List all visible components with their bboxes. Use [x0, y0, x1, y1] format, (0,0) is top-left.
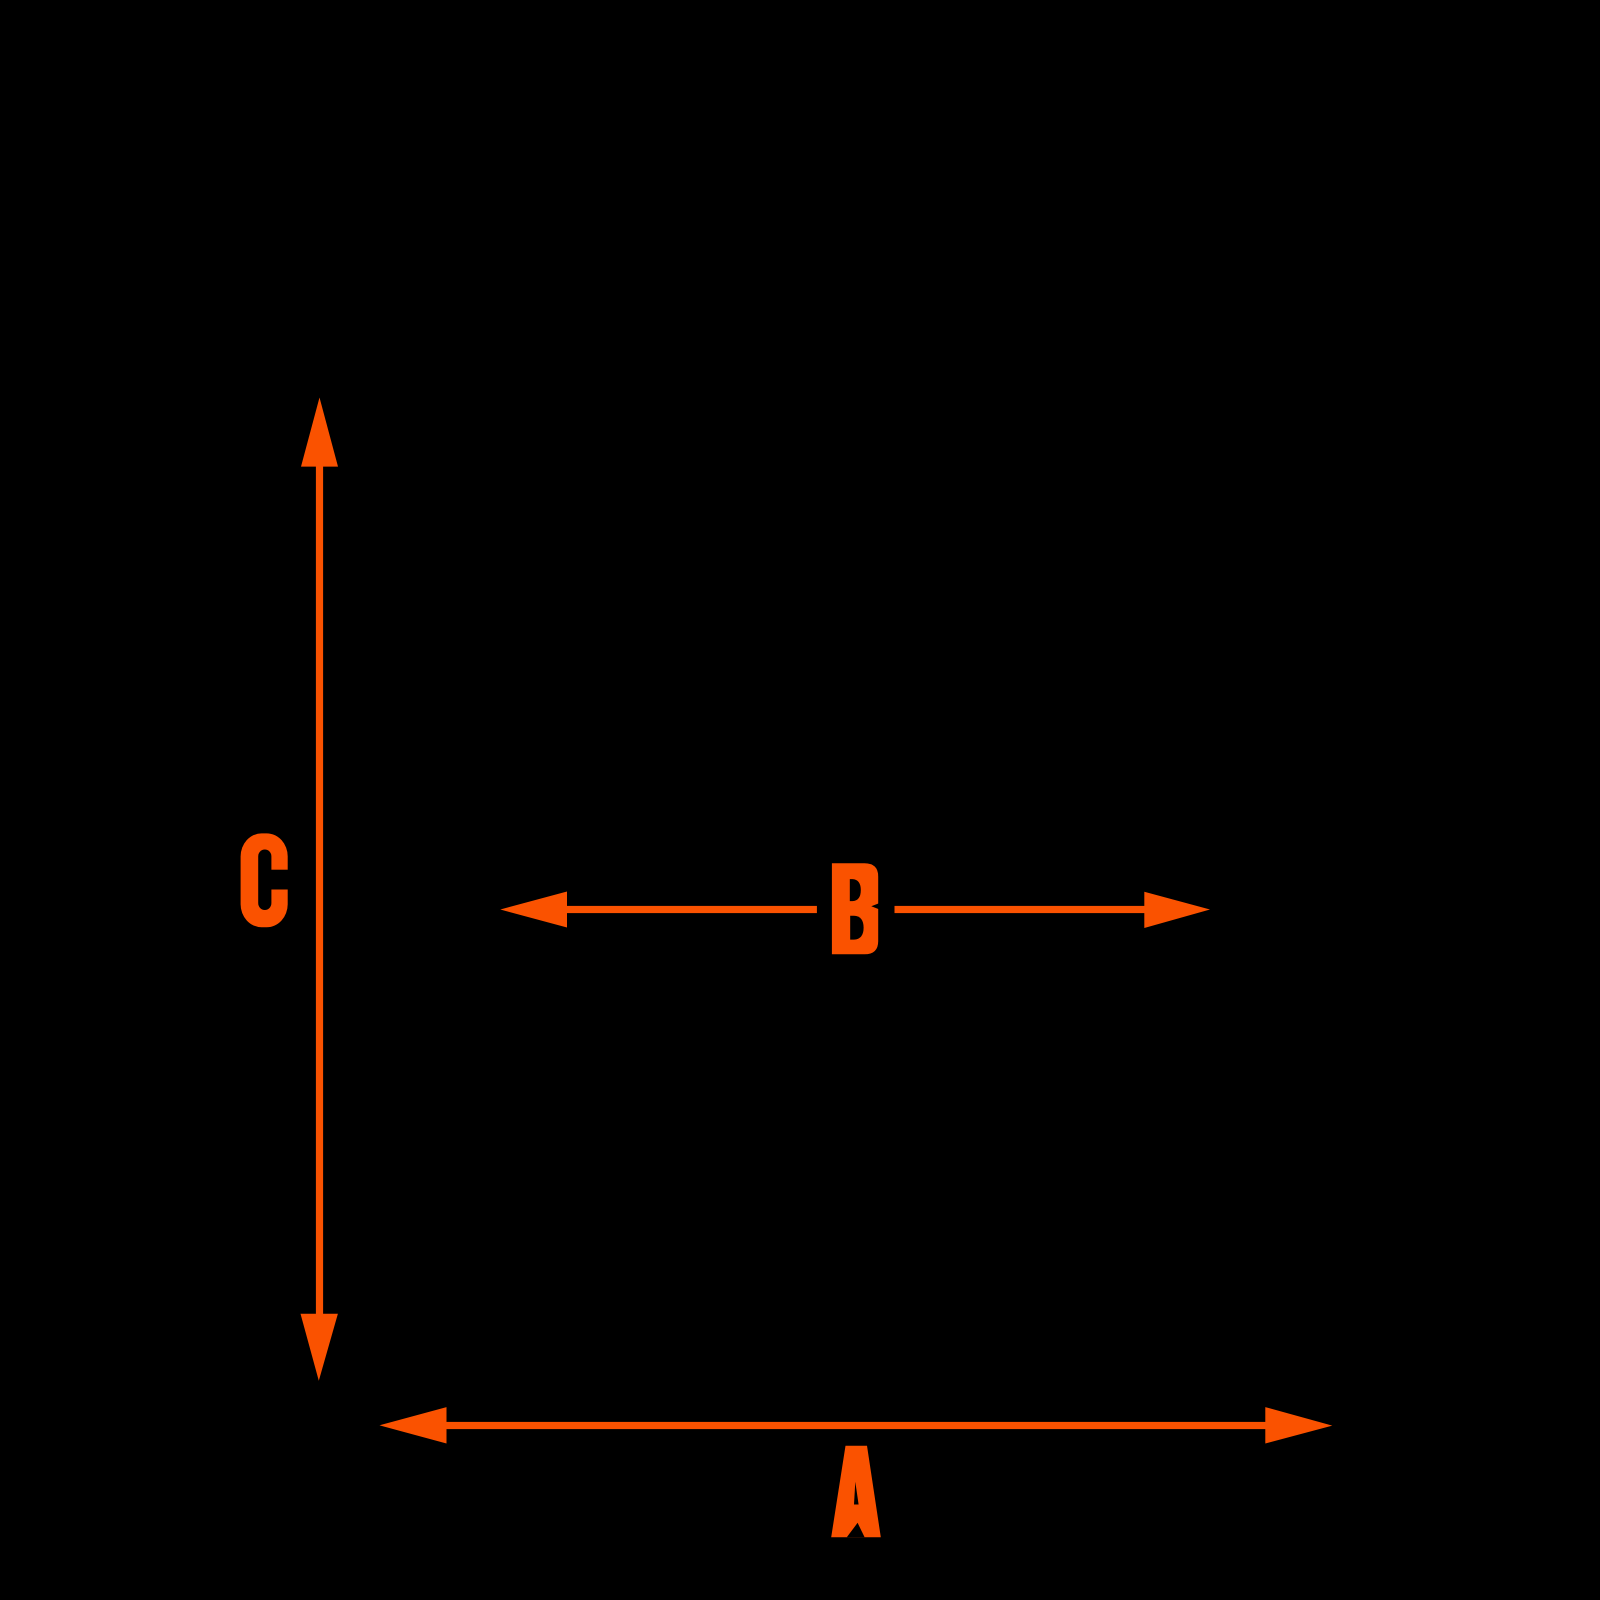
wire: vertical line of C arrow: [316, 460, 323, 1320]
dimension arrow A (horizontal double-headed): [380, 1407, 1333, 1443]
arrowhead A right: [1265, 1407, 1332, 1443]
arrowhead C top: [301, 398, 338, 467]
wire: right segment of B arrow: [895, 906, 1147, 913]
label B: [832, 863, 879, 954]
wire: left segment of B arrow: [565, 906, 817, 913]
arrowhead C bottom: [301, 1314, 338, 1381]
arrowhead B left: [500, 892, 567, 928]
dimension arrow C (vertical double-headed): [301, 398, 339, 1381]
label A: [831, 1446, 881, 1538]
label C: [241, 833, 289, 927]
wire: line of A arrow: [444, 1422, 1267, 1429]
arrowhead B right: [1144, 892, 1210, 928]
dimension arrow B (horizontal double-headed, broken by label): [500, 892, 1210, 929]
arrowhead A left: [380, 1407, 447, 1443]
